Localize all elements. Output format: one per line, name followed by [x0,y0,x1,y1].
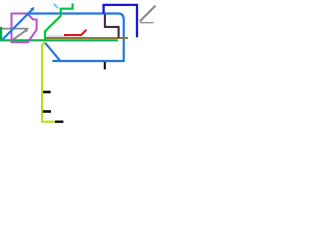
gray arrowhead [24,28,29,33]
green main horizontal [0,39,118,41]
black tick 1 [43,91,51,94]
blue route diagonal [45,42,61,61]
light gray line [48,35,67,37]
blue arrowhead [30,7,34,11]
red line [64,30,86,35]
magenta pentagon [12,14,37,43]
cyan dash [54,4,58,9]
blue route [29,14,124,62]
olive line [46,37,128,39]
black bottom segment [55,120,63,122]
blue diagonal arrow [3,9,34,40]
chartreuse line [42,41,56,121]
green upper path [45,3,73,41]
black vertical tick [104,62,106,69]
deep blue path [104,5,137,38]
gray slash top right [140,6,156,22]
gray underline top right [140,22,154,24]
green left vertical [0,27,2,41]
gray horizontal line [2,28,28,30]
gray diagonal arrow shaft [13,30,26,40]
dark purple path [105,14,119,38]
black tick 2 [43,110,51,113]
